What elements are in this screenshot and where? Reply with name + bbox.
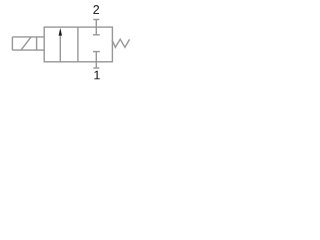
solenoid coil diagonal bbox=[21, 37, 31, 50]
solenoid coil left edge bbox=[11, 37, 13, 50]
solenoid coil bottom armature line bbox=[12, 49, 44, 51]
solenoid coil top armature line bbox=[12, 36, 44, 38]
position divider bbox=[77, 27, 79, 62]
port 2 connection line bbox=[95, 20, 97, 28]
port 2 label bbox=[93, 5, 99, 14]
port 1 terminal tick bbox=[93, 67, 99, 69]
port 1 connection line bbox=[95, 62, 97, 68]
blocked port T bottom (right box) bbox=[95, 52, 97, 62]
solenoid coil right edge bbox=[36, 37, 38, 50]
port 1 label bbox=[94, 71, 99, 80]
valve body (2/2-way valve outer box) bbox=[44, 27, 112, 62]
blocked port T top (right box) bbox=[95, 27, 97, 35]
port 2 terminal tick bbox=[93, 19, 99, 21]
flow arrow shaft (left box, open path) bbox=[59, 31, 61, 62]
return spring bbox=[112, 39, 130, 47]
flow arrow head bbox=[59, 28, 62, 36]
